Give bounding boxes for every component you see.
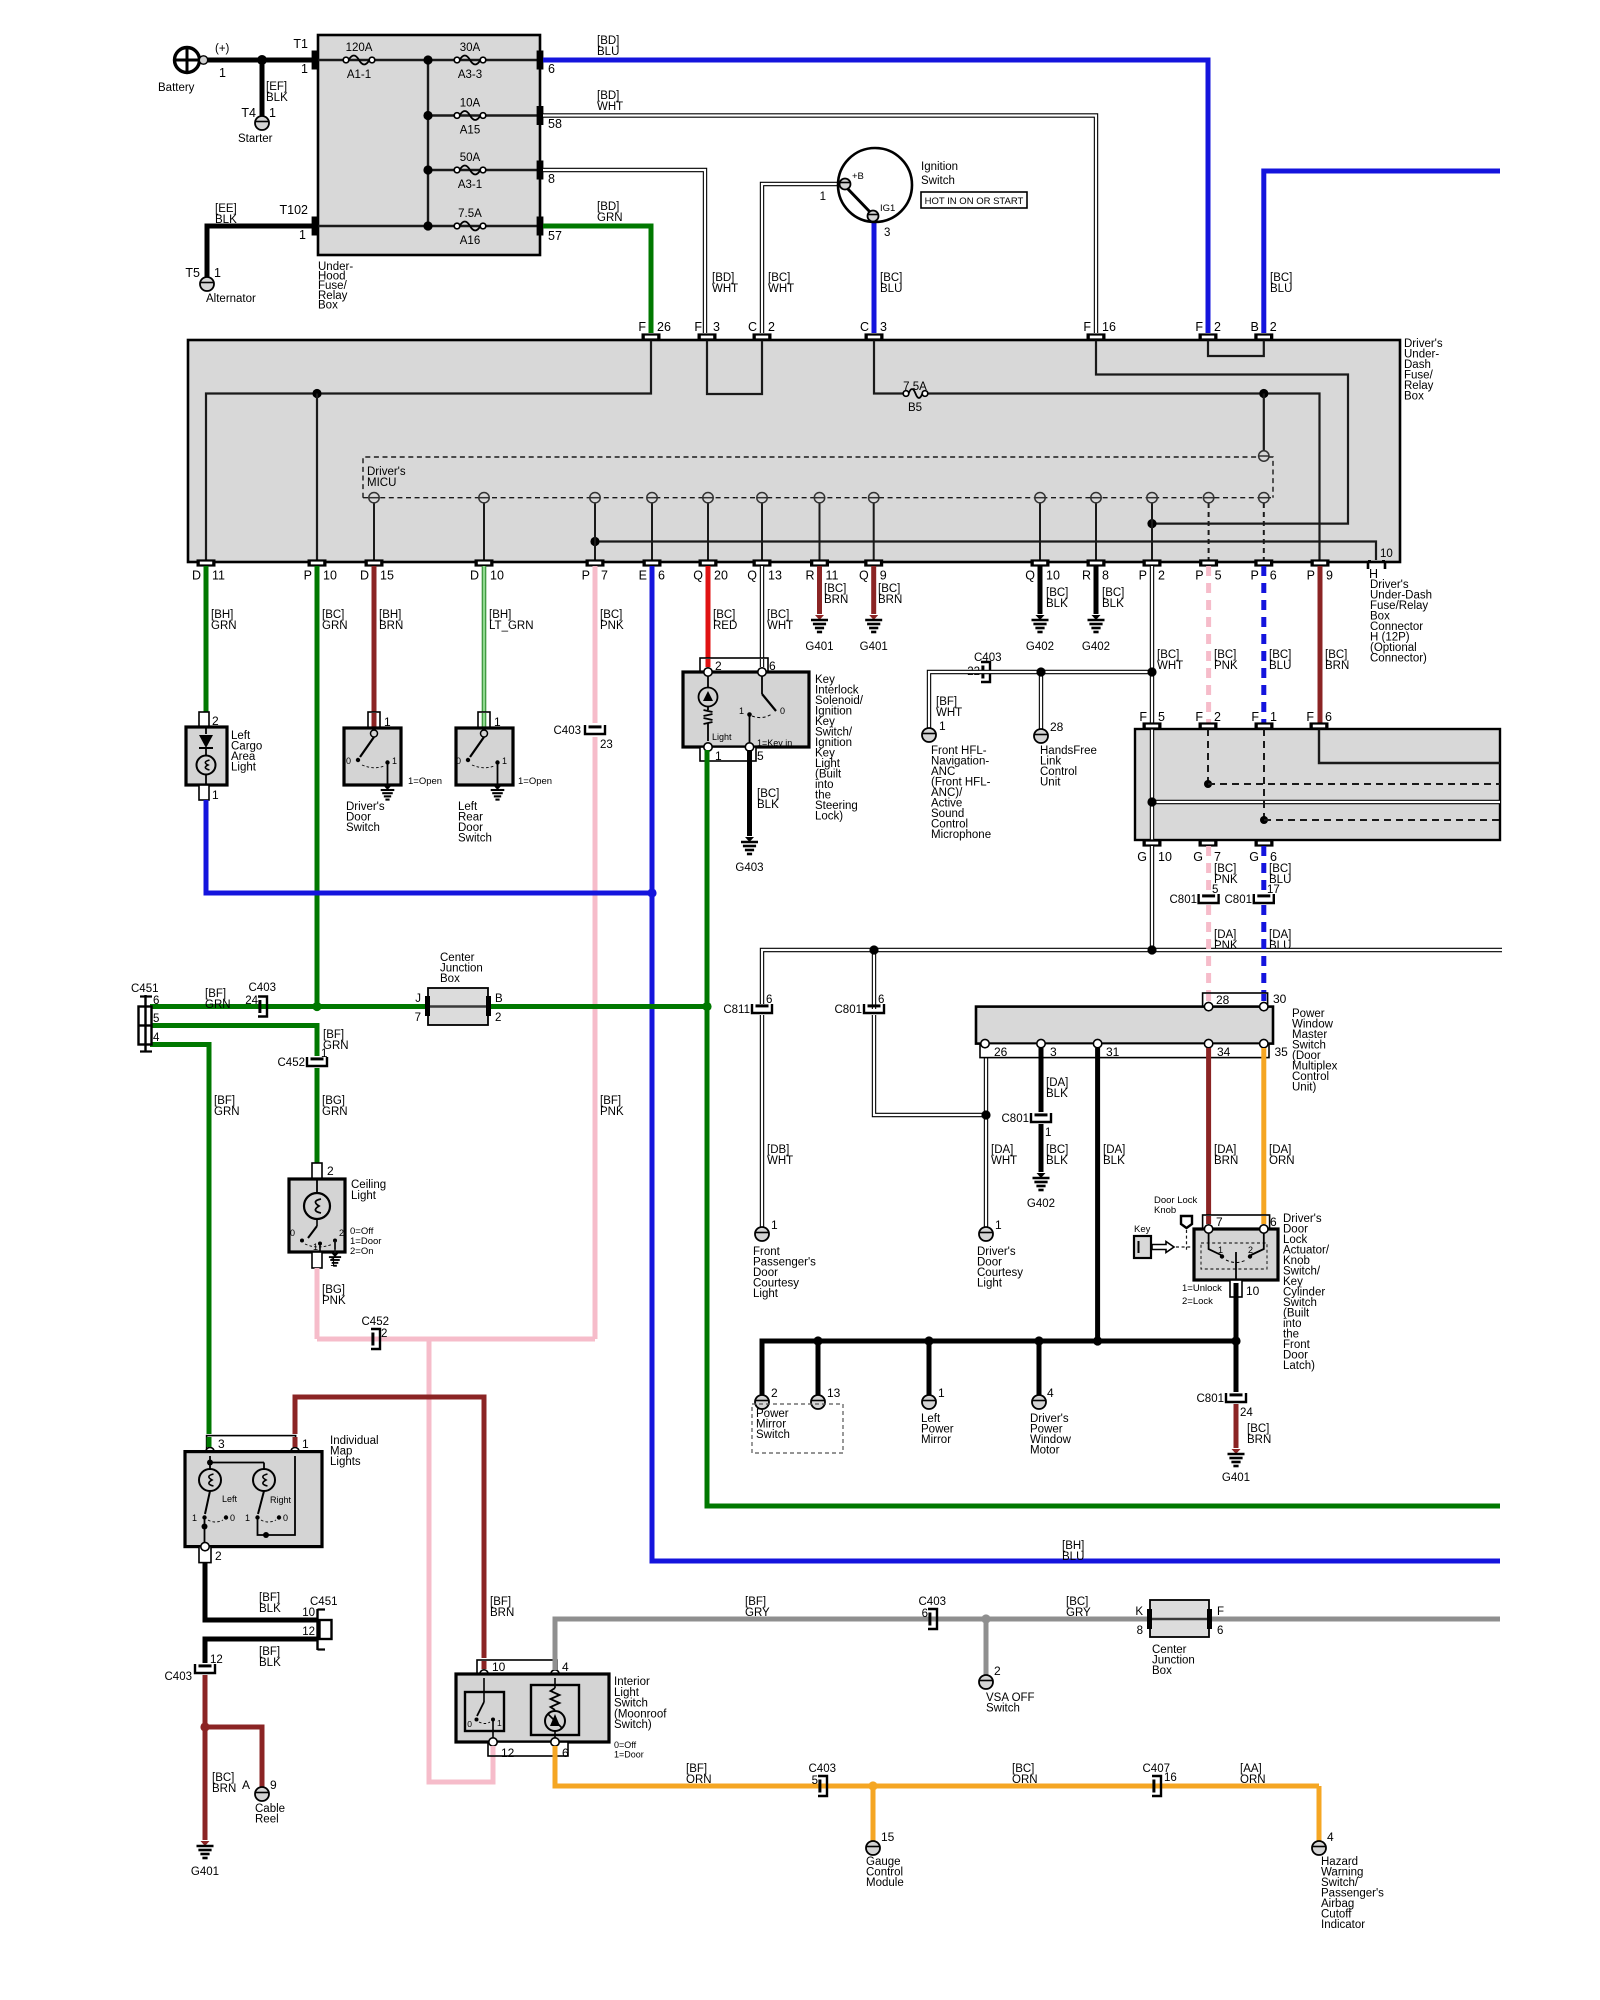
ils pin 10 circle — [480, 1670, 488, 1678]
wire BC BLK key interlock pin5 — [747, 750, 752, 836]
svg-text:2: 2 — [715, 659, 722, 673]
label BC PNK p7 — [600, 609, 624, 632]
label power mirror switch — [756, 1408, 790, 1441]
label act pin 6 — [1270, 1215, 1277, 1229]
label C451 pin 5 — [153, 1013, 159, 1025]
svg-text:8: 8 — [1102, 569, 1109, 583]
svg-text:BLU: BLU — [1270, 283, 1292, 295]
MICU pin Q20 — [703, 493, 713, 503]
wire BRN to cable reel — [205, 1727, 262, 1787]
label C403 24 num — [245, 995, 258, 1007]
svg-text:0: 0 — [456, 756, 461, 766]
label act pin 7 — [1216, 1215, 1223, 1229]
wire DA ORN pwms35 to actuator — [1261, 1048, 1266, 1215]
label key — [1134, 1224, 1151, 1235]
ils switch blade — [475, 1678, 496, 1742]
label BC BLU c3 — [880, 272, 902, 295]
svg-text:C801: C801 — [1225, 894, 1253, 906]
svg-text:5: 5 — [1158, 710, 1165, 724]
actuator pin 10 connector — [1230, 1280, 1242, 1297]
junction fuse bus bottom — [423, 221, 432, 230]
svg-text:Module: Module — [866, 1877, 904, 1889]
svg-text:1: 1 — [302, 1437, 309, 1451]
wire WHT C403-22 run and mic drop — [929, 672, 1152, 728]
stub BLU pwms30 — [1261, 994, 1266, 1001]
under-hood fuse/relay box — [318, 35, 540, 255]
label C801 pin 5 num — [1212, 884, 1218, 896]
svg-text:F: F — [638, 320, 646, 334]
svg-text:BLK: BLK — [1103, 1155, 1125, 1167]
svg-text:BLK: BLK — [757, 799, 779, 811]
label C452 pin 2 num — [381, 1328, 387, 1340]
svg-text:F: F — [1217, 1606, 1224, 1618]
label BF PNK mid — [600, 1095, 624, 1118]
label C451 — [131, 983, 159, 995]
label handsfree text — [1040, 745, 1097, 789]
wire D11-P10-F26 bus — [206, 340, 651, 562]
svg-text:2: 2 — [381, 1328, 387, 1340]
label front HFL text — [931, 745, 991, 841]
label ils 10 — [492, 1660, 506, 1674]
junction fuse bus top — [423, 55, 432, 64]
connector C451 lower — [318, 1609, 332, 1650]
label T1 — [293, 37, 308, 51]
pwms pin 35 circle — [1260, 1039, 1268, 1047]
svg-text:P: P — [1250, 569, 1258, 583]
wire F2-B2 link — [1208, 340, 1264, 356]
pin T1 — [312, 51, 319, 70]
driver's door switch box — [344, 728, 401, 785]
stub RED ki pin2 — [706, 659, 711, 667]
MICU pin D15 — [369, 493, 379, 503]
wire MICU riser P6 dashed — [1263, 503, 1265, 562]
wire E6 BLU down to blue bus — [652, 566, 1500, 1561]
terminal ignition +B — [840, 179, 851, 190]
map light left bulb — [199, 1469, 221, 1491]
svg-text:13: 13 — [827, 1386, 841, 1400]
label BC WHT q13 — [767, 609, 793, 632]
fuse A16 7.5A — [454, 222, 486, 231]
label DA BLK p31 — [1103, 1144, 1125, 1167]
label BD WHT f3 — [712, 272, 738, 295]
pin 57 under-hood — [537, 217, 544, 236]
MICU pin Q13 — [757, 493, 767, 503]
label pwms 34 — [1217, 1045, 1231, 1059]
svg-text:Battery: Battery — [158, 82, 195, 94]
wire WHT inside to right — [1152, 800, 1500, 804]
svg-text:1: 1 — [771, 1218, 778, 1232]
wire fuse row A3-1 — [428, 169, 537, 171]
svg-text:0: 0 — [780, 706, 785, 716]
svg-text:2: 2 — [768, 320, 775, 334]
svg-text:9: 9 — [270, 1778, 277, 1792]
connector C403 pin 23 — [585, 725, 605, 734]
svg-text:BRN: BRN — [1214, 1155, 1238, 1167]
svg-text:C403: C403 — [809, 1763, 837, 1775]
svg-text:GRN: GRN — [322, 620, 348, 632]
svg-text:Switch: Switch — [458, 833, 492, 845]
svg-text:1=Key in: 1=Key in — [757, 738, 792, 748]
label BH BLU bus — [1062, 1540, 1084, 1563]
svg-text:Switch: Switch — [346, 822, 380, 834]
label pwms 3 — [1050, 1045, 1057, 1059]
svg-text:26: 26 — [657, 320, 671, 334]
svg-text:17: 17 — [1267, 884, 1280, 896]
label under-hood box name — [318, 261, 353, 311]
svg-text:WHT: WHT — [767, 1155, 793, 1167]
wire P2 WHT down to F5 — [1150, 566, 1154, 723]
svg-text:1: 1 — [301, 62, 308, 76]
wire BLU cargo to E6 — [206, 800, 652, 893]
svg-text:1: 1 — [392, 756, 397, 766]
svg-text:1: 1 — [330, 1255, 337, 1269]
svg-text:Starter: Starter — [238, 133, 273, 145]
svg-text:0: 0 — [290, 1228, 295, 1238]
wire drop terminal 13 — [816, 1341, 821, 1396]
svg-text:MICU: MICU — [367, 477, 396, 489]
svg-text:1: 1 — [497, 1718, 502, 1728]
center junction box 2 — [1150, 1600, 1209, 1637]
svg-text:C403: C403 — [249, 982, 277, 994]
battery — [173, 46, 208, 74]
svg-text:E: E — [639, 569, 647, 583]
wire pin8 to F3 — [543, 170, 705, 333]
svg-text:5: 5 — [1212, 884, 1218, 896]
wire BF BLK C451-12 to C403-12 — [205, 1639, 317, 1663]
pin Q10 bottom — [1031, 559, 1050, 566]
label Alternator — [206, 293, 256, 305]
svg-text:Lights: Lights — [330, 1456, 361, 1468]
label T102 pin 1 — [299, 228, 306, 242]
wire WHT G10 to white bus — [1150, 846, 1154, 950]
junction cable reel branch — [200, 1722, 209, 1731]
svg-text:10A: 10A — [460, 98, 481, 110]
svg-text:28: 28 — [1050, 720, 1064, 734]
svg-text:PNK: PNK — [600, 1106, 624, 1118]
svg-text:1: 1 — [219, 66, 226, 80]
label BC PNK p5 — [1214, 649, 1238, 672]
driver's under-dash fuse/relay box — [188, 340, 1400, 562]
ground driver's door switch — [381, 786, 395, 800]
svg-text:P: P — [1139, 569, 1147, 583]
label G402 c801 — [1027, 1198, 1055, 1210]
svg-text:BLK: BLK — [259, 1657, 281, 1669]
MICU pin R11 — [814, 493, 824, 503]
svg-text:BLU: BLU — [597, 46, 619, 58]
svg-text:A: A — [242, 1778, 250, 1792]
wire BLK actuator pin10 down — [1234, 1283, 1239, 1341]
svg-text:1=Open: 1=Open — [408, 776, 442, 787]
label cjb1 7 — [415, 1012, 421, 1024]
wire GRY to VSA — [984, 1619, 989, 1675]
pin P10 bottom — [308, 559, 327, 566]
svg-text:G: G — [1137, 850, 1147, 864]
svg-text:58: 58 — [548, 117, 562, 131]
svg-text:11: 11 — [212, 569, 225, 583]
svg-text:1: 1 — [715, 749, 722, 763]
terminal front HFL mic pin 1 — [922, 728, 936, 742]
label BF GRN bus — [205, 988, 231, 1011]
dot F2 inside — [1204, 780, 1212, 788]
label ceiling positions — [350, 1226, 381, 1257]
cargo light LED — [199, 727, 213, 756]
wire ORN to gauge module — [871, 1786, 876, 1841]
label BC BRN act — [1247, 1423, 1271, 1446]
svg-text:C811: C811 — [723, 1004, 750, 1016]
label G401 q9 — [860, 641, 888, 653]
svg-text:28: 28 — [1216, 993, 1230, 1007]
label drivers power window motor — [1030, 1413, 1072, 1457]
terminal ignition IG1 — [868, 211, 879, 222]
label ils 12 — [501, 1746, 515, 1760]
ground G402 q10 — [1032, 615, 1049, 632]
wire DA BRN pwms34 to actuator — [1206, 1048, 1211, 1215]
connector C403 pin 6 — [928, 1609, 937, 1629]
svg-text:C403: C403 — [554, 725, 582, 737]
svg-text:1: 1 — [938, 1386, 945, 1400]
wire drop window motor — [1037, 1341, 1042, 1396]
left rear door switch blade — [466, 730, 500, 785]
junction white bus G10 — [1147, 945, 1156, 954]
svg-text:C801: C801 — [1197, 1393, 1225, 1405]
svg-text:D: D — [470, 569, 479, 583]
junction green bus P10 — [312, 1002, 321, 1011]
wire drop left mirror — [927, 1341, 932, 1396]
map pin 1 circle — [291, 1447, 299, 1455]
svg-text:6: 6 — [153, 995, 159, 1007]
svg-text:1=Unlock: 1=Unlock — [1182, 1283, 1222, 1294]
label C801 pin 17 num — [1267, 884, 1280, 896]
svg-text:C801: C801 — [1002, 1113, 1030, 1125]
fuse B5 7.5A in-box — [903, 389, 928, 398]
svg-text:+B: +B — [852, 171, 864, 182]
wire R11 BRN to ground — [817, 566, 822, 614]
svg-text:(+): (+) — [215, 43, 230, 55]
label BF GRN c452 — [323, 1029, 349, 1052]
label left power mirror — [921, 1413, 954, 1446]
svg-text:G402: G402 — [1027, 1198, 1055, 1210]
pin F2 right box top — [1199, 722, 1218, 729]
svg-text:A3-3: A3-3 — [458, 69, 482, 81]
label BG PNK — [322, 1284, 346, 1307]
key interlock top connector — [700, 658, 768, 672]
ils top connector — [477, 1660, 557, 1674]
label pwms 35 — [1275, 1045, 1289, 1059]
svg-text:2=On: 2=On — [350, 1246, 374, 1257]
MICU pin upper P6 feed — [1259, 451, 1269, 461]
dot F1 inside — [1260, 816, 1268, 824]
junction white bus C801-6 — [869, 945, 878, 954]
svg-text:Right: Right — [270, 1495, 292, 1505]
svg-text:T4: T4 — [241, 106, 256, 120]
pwms bottom connector — [980, 1044, 1269, 1058]
label hazard text — [1321, 1856, 1384, 1931]
svg-text:BRN: BRN — [1325, 660, 1349, 672]
pin G6 right box bottom — [1255, 839, 1274, 846]
wire BLK pin10 to C801-24 — [1234, 1341, 1239, 1392]
wire dashed F2 right — [1208, 783, 1500, 785]
svg-text:GRN: GRN — [211, 620, 237, 632]
label C801 b — [835, 1004, 863, 1016]
terminal drivers door courtesy 1 — [979, 1227, 993, 1241]
label BH BRN d15 — [379, 609, 403, 632]
svg-text:2: 2 — [1214, 320, 1221, 334]
svg-text:7: 7 — [601, 569, 608, 583]
wire WHT C801-6 drop — [872, 950, 876, 1009]
connector H brackets — [1368, 561, 1385, 569]
label ils 6 — [562, 1746, 569, 1760]
svg-text:34: 34 — [1217, 1045, 1231, 1059]
wire P7 to connector H — [595, 542, 1376, 561]
connector C801 pin 24 — [1226, 1393, 1246, 1402]
svg-text:A15: A15 — [460, 125, 480, 137]
svg-text:6: 6 — [1270, 1215, 1277, 1229]
wire BG PNK ceiling pin1 down — [315, 1268, 320, 1339]
svg-text:Light: Light — [351, 1190, 377, 1202]
fuse A15 10A — [454, 111, 486, 120]
svg-text:2: 2 — [1158, 569, 1165, 583]
ground ceiling light — [329, 1254, 341, 1266]
ignition switch blade — [846, 187, 871, 213]
ils switch sub-box — [465, 1692, 504, 1731]
svg-text:WHT: WHT — [1157, 660, 1183, 672]
wire PNK run to C452-2 — [317, 1337, 595, 1342]
svg-text:3: 3 — [884, 227, 890, 239]
fuse A3-3 30A — [454, 56, 486, 65]
label Ignition Switch — [921, 161, 958, 187]
svg-text:BRN: BRN — [1247, 1434, 1271, 1446]
label EF BLK — [266, 81, 288, 104]
svg-text:50A: 50A — [460, 152, 481, 164]
svg-text:10: 10 — [1158, 850, 1172, 864]
MICU pin R8 — [1091, 493, 1101, 503]
terminal power mirror 13 — [811, 1395, 825, 1409]
label C403 pin 23 — [600, 739, 613, 751]
svg-text:P: P — [304, 569, 312, 583]
label cable reel 9 — [270, 1778, 277, 1792]
wire DA BLK pwms3 to C801-1 — [1039, 1048, 1044, 1112]
MICU pin Q10 — [1035, 493, 1045, 503]
svg-text:P: P — [582, 569, 590, 583]
wire BC GRN P10 down — [315, 566, 320, 1006]
label cargo pin 2 — [212, 714, 219, 728]
wire Q10 BLK to ground — [1038, 566, 1043, 614]
ground G401 r11 — [811, 615, 828, 632]
svg-text:ORN: ORN — [1012, 1774, 1038, 1786]
driver's door switch blade — [356, 730, 390, 785]
svg-text:F: F — [694, 320, 702, 334]
label DA BRN — [1214, 1144, 1238, 1167]
label G402 q10 — [1026, 641, 1054, 653]
wire WHT F5 to G10 inside — [1150, 729, 1154, 840]
svg-text:BLU: BLU — [1062, 1551, 1084, 1563]
wire MICU riser R8 — [1095, 498, 1097, 562]
svg-text:G402: G402 — [1082, 641, 1110, 653]
svg-text:Connector): Connector) — [1370, 653, 1427, 665]
svg-text:1: 1 — [502, 756, 507, 766]
label BC GRY — [1066, 1596, 1091, 1619]
svg-text:Mirror: Mirror — [921, 1434, 951, 1446]
key interlock lamp branch — [699, 676, 718, 741]
label 1=Open ds — [408, 776, 442, 787]
svg-text:Light: Light — [977, 1278, 1003, 1290]
wire to starter — [260, 60, 265, 116]
label BF GRY — [745, 1596, 770, 1619]
svg-text:Box: Box — [440, 973, 460, 985]
ground G401 bottom left — [197, 1841, 214, 1858]
wire green through cjb1 — [428, 1005, 488, 1007]
connector C403 pin 22 — [981, 662, 990, 682]
svg-text:24: 24 — [245, 995, 258, 1007]
pin B2 top — [1254, 333, 1273, 340]
pin R8 bottom — [1087, 559, 1106, 566]
wire BF GRY — [555, 1619, 1500, 1670]
label cjb2 8 — [1137, 1625, 1143, 1637]
label G403 — [735, 862, 763, 874]
pin R11 bottom — [810, 559, 829, 566]
key icon — [1134, 1236, 1174, 1258]
key dashed link — [1176, 1246, 1194, 1248]
svg-text:Light: Light — [712, 732, 732, 742]
label lpm pin 1 — [938, 1386, 945, 1400]
svg-text:16: 16 — [1164, 1772, 1177, 1784]
svg-text:ORN: ORN — [686, 1774, 712, 1786]
svg-text:BRN: BRN — [490, 1607, 514, 1619]
svg-text:5: 5 — [812, 1775, 818, 1787]
svg-text:15: 15 — [881, 1830, 895, 1844]
label BC PNK g7 — [1214, 863, 1238, 886]
label pin 6 — [548, 62, 555, 76]
svg-text:RED: RED — [713, 620, 737, 632]
label C403 12 name — [165, 1671, 193, 1683]
label G402 r8 — [1082, 641, 1110, 653]
svg-text:5: 5 — [153, 1013, 159, 1025]
pin 58 under-hood — [537, 106, 544, 125]
wire MICU riser D15 — [373, 498, 375, 562]
label 1=Open lrds — [518, 776, 552, 787]
svg-text:Unit: Unit — [1040, 777, 1061, 789]
wire GRN C451-4 down to map lights — [150, 1045, 209, 1435]
svg-text:BLK: BLK — [1046, 1088, 1068, 1100]
connector C801 pin 1 — [1031, 1113, 1051, 1122]
driver's MICU dashed box — [363, 457, 1273, 498]
svg-text:F: F — [1195, 710, 1203, 724]
ceiling contact 2 to ground — [334, 1241, 336, 1254]
ils resistor and bulb — [545, 1678, 565, 1742]
svg-text:GRY: GRY — [745, 1607, 770, 1619]
fuse A1-1 120A — [343, 56, 375, 65]
label Starter — [238, 133, 273, 145]
map light left switch — [202, 1491, 229, 1546]
svg-text:15: 15 — [380, 569, 394, 583]
pin E6 bottom — [643, 559, 662, 566]
svg-text:PNK: PNK — [1214, 660, 1238, 672]
svg-text:C403: C403 — [919, 1596, 947, 1608]
label battery plus — [215, 43, 230, 55]
wire PNK G7 dashed to C801-5 — [1206, 846, 1211, 893]
stub GRN map pin3 — [207, 1437, 212, 1447]
svg-text:12: 12 — [210, 1654, 223, 1666]
svg-text:Latch): Latch) — [1283, 1360, 1315, 1372]
label BF WHT — [936, 696, 962, 719]
label center junction box 1 — [440, 952, 483, 985]
svg-text:2: 2 — [1214, 710, 1221, 724]
wire alternator to T102 — [207, 226, 312, 278]
label C407 16 name — [1143, 1763, 1171, 1775]
wire BC PNK P7 down — [593, 566, 598, 723]
wire fuse row A16 — [318, 225, 537, 227]
wire R8 BLK to ground — [1094, 566, 1099, 614]
